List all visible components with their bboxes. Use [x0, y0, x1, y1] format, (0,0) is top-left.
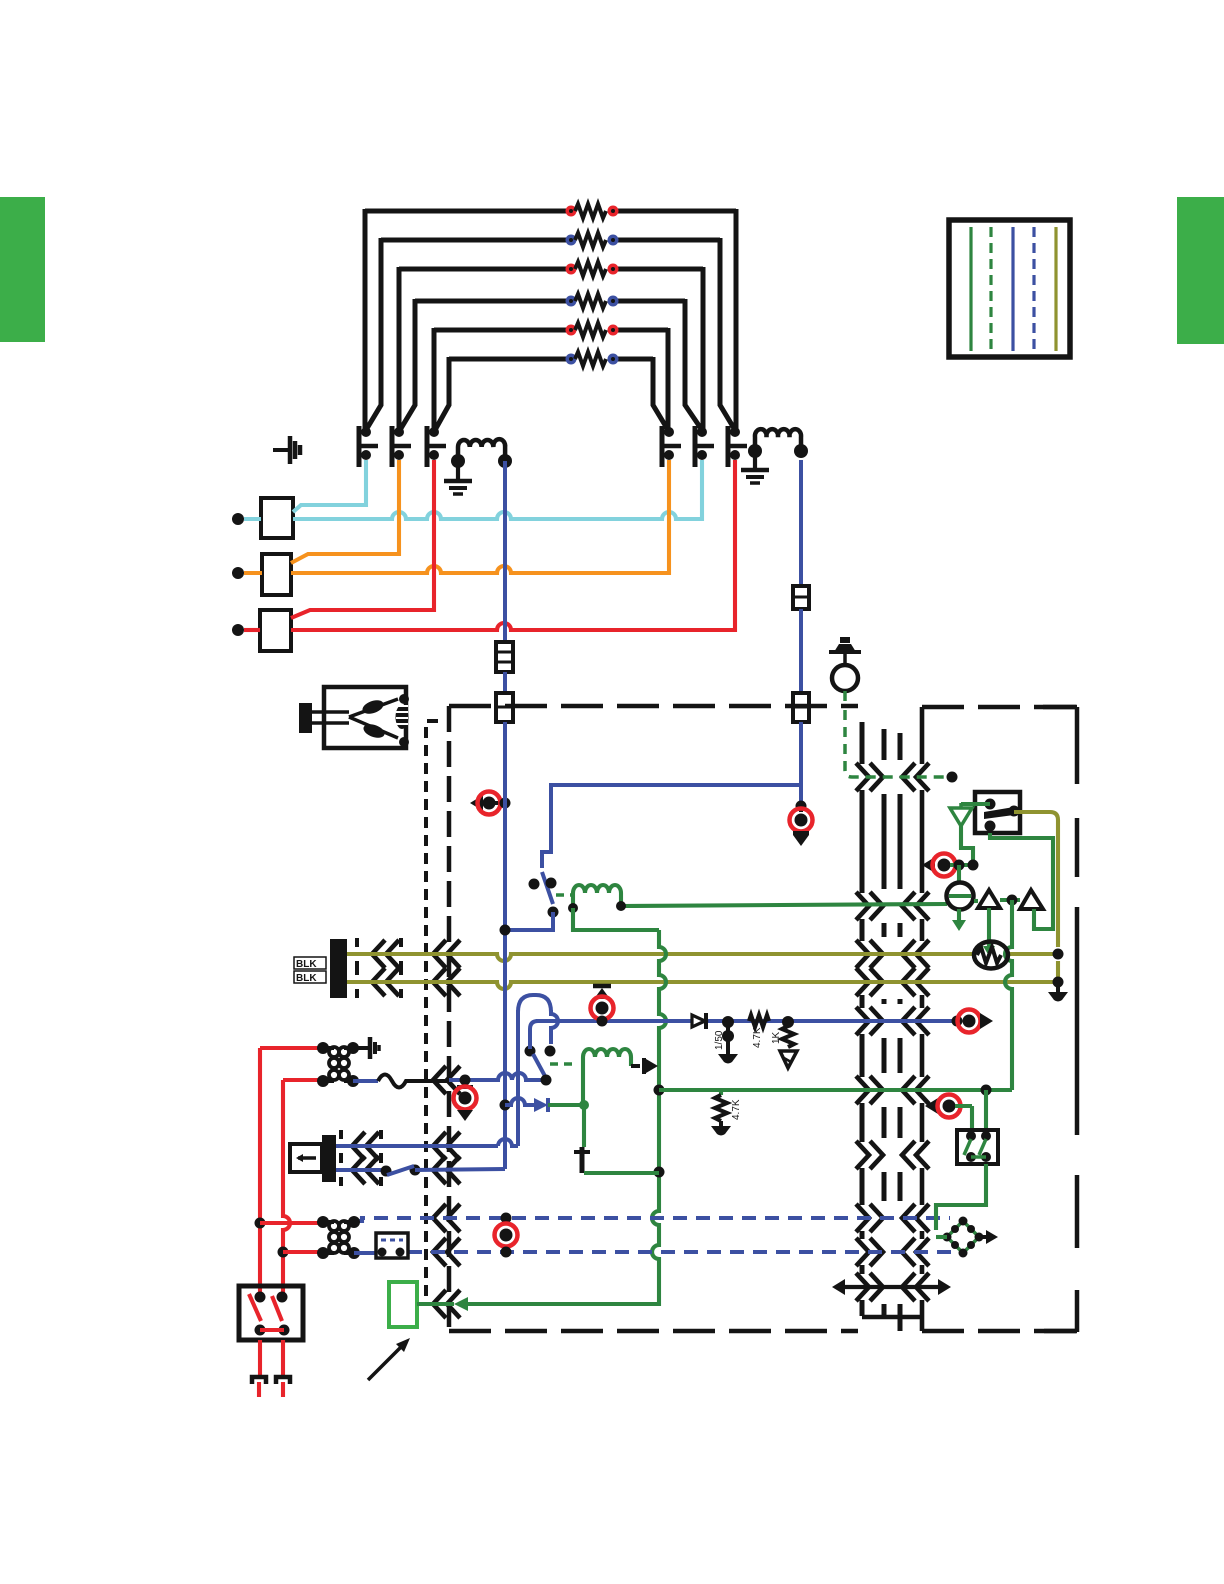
splice ring R6	[922, 857, 935, 873]
wire row4 left vertical+diag to coil T2	[400, 299, 415, 430]
sensor circle	[832, 665, 858, 691]
inductor L1 (left trigger coil)	[458, 439, 505, 461]
blue main drop mid	[503, 722, 507, 1169]
wire row4 right vertical+diag to coil T5	[685, 299, 702, 430]
spark module box	[290, 1144, 322, 1172]
dashed box main top edge	[449, 704, 858, 709]
green wire K2 to capacitor	[582, 1105, 586, 1147]
blue jumper y995	[518, 995, 551, 1012]
green wire triangle to splice	[961, 826, 973, 865]
module-side connector pins at y=1146	[352, 1132, 365, 1160]
blue wire C2 down to splice	[799, 722, 803, 806]
right dashed box top edge	[922, 705, 1077, 710]
right dashed box right edge	[1043, 705, 1077, 710]
svg-text:4.7K: 4.7K	[731, 1099, 742, 1120]
stator-side connector housing dashes	[355, 938, 359, 947]
gauge circle G1	[957, 865, 961, 883]
splice ring R8	[925, 1098, 938, 1114]
relay coil K1	[573, 885, 621, 893]
svg-text:4.7K: 4.7K	[752, 1027, 763, 1048]
page tab left	[0, 197, 45, 342]
green vertical from T-junction	[1005, 900, 1012, 1090]
condenser C3	[574, 1150, 590, 1154]
chassis ground (sideways) near towers	[273, 448, 290, 452]
points switch S1 blade	[542, 872, 553, 904]
connector box B2	[262, 554, 291, 595]
connector bank pin pair at y=1218	[856, 1204, 869, 1232]
battery terminal clamps	[252, 1377, 266, 1384]
blue module row top	[336, 1144, 498, 1148]
connector diamond	[947, 1221, 979, 1253]
wire row1 right vertical to coil T6	[734, 209, 739, 430]
red wire T3 drop to B3	[291, 460, 434, 618]
green gauge row	[659, 1088, 1012, 1092]
spark plug resistor R5	[566, 325, 577, 336]
olive wire row 2	[347, 982, 1056, 989]
blue dashed row 2	[408, 1250, 952, 1254]
wire row3 left vertical to coil T2	[397, 267, 402, 430]
spark plug wire row 1 horizontal	[365, 209, 571, 214]
connector bank housing line B	[882, 729, 887, 760]
wire row6 left vertical+diag to coil T3	[435, 357, 449, 430]
green ground arrow under G1	[957, 909, 961, 920]
red wires S4 to battery	[258, 1340, 262, 1377]
connector box B1	[261, 498, 293, 538]
transformer W2	[323, 1220, 334, 1224]
red vertical feed 1	[258, 1048, 262, 1223]
interlock box B4	[354, 1251, 376, 1255]
svg-text:1/50: 1/50	[714, 1030, 725, 1050]
resistor 4.7K horizontal	[749, 1015, 769, 1027]
blue wire branch to points switch	[542, 785, 801, 868]
green connector box (instrument)	[389, 1282, 417, 1327]
spark plug resistor R1	[566, 206, 577, 217]
S5 contacts	[966, 1131, 976, 1141]
inductor L2 (right trigger coil)	[755, 429, 801, 451]
capacitor 1/50 branch	[722, 1016, 734, 1028]
green arrow into instrument connector	[454, 1297, 468, 1311]
relay box K3	[975, 792, 1020, 833]
orange wire B2 to T4 (long row)	[291, 460, 669, 573]
blue wire from L1 down to fuse F1	[503, 461, 507, 642]
cyan wire B1 to T5 (long row)	[293, 460, 702, 519]
blue drop junction dots	[500, 925, 511, 936]
mechanical link S1 to K1	[556, 893, 571, 897]
connector bank pin pair at y=982	[856, 968, 869, 996]
splice ring R7	[952, 1016, 963, 1027]
connector bank housing line D (right box left edge)	[920, 707, 925, 764]
kill switch S3	[381, 1166, 392, 1177]
splice ring R1	[470, 795, 483, 811]
terminal dot B2	[232, 567, 244, 579]
diamond output arrow	[979, 1235, 986, 1239]
green wire S5 to diamond	[936, 1164, 986, 1230]
green dashed end dot	[947, 772, 958, 783]
ground at W1	[353, 1046, 370, 1050]
red wire to coil W1 top	[260, 1046, 323, 1050]
ground below L2	[753, 456, 757, 469]
blue wire F1 to connector C1	[503, 672, 507, 693]
blue ignition row	[536, 1019, 692, 1023]
spark plug wire row 4 horizontal	[415, 299, 571, 304]
annotation arrow to green box	[368, 1344, 404, 1380]
green vertical main (x659)	[659, 930, 666, 1090]
points switch S2 blade	[533, 1054, 546, 1078]
page tab right	[1177, 197, 1224, 344]
terminal dot B1	[232, 513, 244, 525]
spark plug resistor R6	[566, 354, 577, 365]
blue vertical x518	[516, 1010, 520, 1146]
connector bank pin pair at y=906	[856, 892, 869, 920]
blue dashed row 1	[354, 1218, 950, 1221]
olive wire row 1 right segment	[1009, 952, 1056, 956]
ignition coil tower T5	[693, 426, 698, 467]
stator plug	[299, 703, 312, 733]
green gauge row right dot	[981, 1085, 992, 1096]
left harness connector pins at y=1146	[433, 1132, 446, 1160]
splice ring R5	[501, 1213, 512, 1224]
stator-side connector pins at y=982	[372, 968, 385, 996]
blue wire to diode D2	[505, 1098, 534, 1105]
sensor bulb antenna	[829, 650, 861, 654]
green vertical main lower (x659)	[468, 1090, 659, 1304]
resistor 4.7K vertical with ground	[719, 1090, 723, 1095]
module-side connector housing dashes	[339, 1130, 343, 1139]
BLK label block	[330, 939, 347, 998]
blue wire from L2 down to fuse F2	[799, 460, 803, 586]
ignition coil W1	[323, 1046, 334, 1050]
K3 contacts	[985, 799, 996, 810]
wire row2 right vertical+diag to coil T6	[720, 238, 735, 430]
ignition coil tower T1	[357, 426, 362, 467]
fuse F2	[793, 586, 809, 609]
stator-side connector pins at y=954	[372, 940, 385, 968]
olive wire row 1	[347, 954, 973, 961]
wire row5 right vertical to coil T4	[666, 328, 671, 430]
bottom harness row	[832, 1279, 845, 1295]
connector bank pin pair at y=1090	[856, 1076, 869, 1104]
spark plug wire row 6 horizontal	[449, 357, 571, 362]
spark plug resistor R4	[566, 296, 577, 307]
green junction dots x659	[654, 1085, 665, 1096]
spark plug resistor R3	[566, 264, 577, 275]
connector box B3	[260, 610, 291, 651]
red vertical feed 2	[283, 1080, 290, 1297]
spark plug resistor R2	[566, 235, 577, 246]
stator box	[324, 687, 406, 748]
red wire to W2 top	[260, 1221, 323, 1225]
green dashed sensor wire	[843, 691, 847, 704]
connector bank pin pair at y=954	[856, 940, 869, 968]
wire row6 right vertical+diag to coil T4	[653, 357, 668, 430]
left harness connector pins at y=1218	[433, 1204, 446, 1232]
diode D1	[692, 1015, 705, 1027]
S4 contacts	[255, 1292, 266, 1303]
K2 output arrow	[631, 1064, 640, 1068]
blue wire F2 to connector C2	[799, 609, 803, 693]
olive wire K3 out	[1014, 812, 1058, 947]
orange wire T2 drop to B2	[291, 460, 399, 563]
red wire to coil W1 bottom	[283, 1078, 323, 1082]
ignition coil tower T6	[726, 426, 731, 467]
fuse F1	[496, 642, 513, 672]
wire row2 left vertical+diag to coil T1	[366, 238, 381, 430]
key switch box S4	[239, 1286, 303, 1340]
noise suppressor wire	[353, 1079, 378, 1083]
spark plug wire row 5 horizontal	[434, 328, 571, 333]
right dashed box bottom edge	[922, 1329, 1077, 1334]
legend box with wire color key	[949, 220, 1070, 357]
green wire K3 to T2	[990, 833, 1053, 929]
green triangle device	[950, 808, 972, 826]
mechanical link S2 to K2	[550, 1062, 578, 1066]
resistor 1K vertical with ground	[782, 1016, 794, 1028]
blue module row bottom right	[415, 1169, 505, 1170]
blue vertical x530 contact drop	[530, 1021, 538, 1049]
blue module row bottom	[336, 1168, 382, 1172]
connector bank pin pair at y=777	[856, 763, 869, 791]
connector bank bottom joint	[862, 1315, 922, 1320]
indicator lamp	[974, 942, 1008, 969]
left harness connector pins at y=954	[433, 940, 446, 968]
dashed box main bottom edge	[449, 1329, 858, 1334]
green wire K1-left down and over	[573, 908, 659, 930]
green wires to switch S5	[970, 1106, 974, 1130]
connector bank housing line A	[860, 722, 865, 764]
spark plug wire row 2 horizontal	[381, 238, 571, 243]
left harness connector pins at y=1170	[433, 1156, 446, 1184]
bulkhead connector C1	[496, 693, 513, 722]
ignition coil tower T4	[660, 426, 665, 467]
wire row1 left vertical to coil T1	[363, 209, 368, 430]
blue accessory row	[449, 1073, 546, 1080]
splice ring R2	[796, 801, 807, 812]
left harness connector pins at y=1080	[433, 1066, 446, 1094]
wire row3 right vertical to coil T5	[701, 267, 706, 430]
spark module plug	[322, 1135, 336, 1182]
red wire to W2 bottom	[283, 1250, 323, 1254]
switch box S5	[957, 1130, 998, 1164]
connector bank pin pair at y=1021	[856, 1007, 869, 1035]
module-side connector pins at y=1170	[352, 1156, 365, 1184]
connector bank housing line C	[898, 733, 903, 760]
red wire B3 to T6 (long row)	[291, 460, 735, 630]
connector bank pin pair at y=1287	[856, 1273, 869, 1301]
ground under olive bus	[1056, 982, 1060, 992]
relay coil K2	[583, 1049, 631, 1057]
green wire C3 to x659	[584, 1171, 659, 1175]
splice ring R4	[460, 1075, 471, 1086]
blue vertical x551	[551, 1010, 558, 1044]
diode D2 (blue)	[534, 1098, 548, 1112]
regulator triangle T2	[1020, 890, 1043, 909]
green wire to K3	[961, 802, 990, 806]
ignition coil tower T3	[425, 426, 430, 467]
connector bank pin pair at y=1252	[856, 1238, 869, 1266]
green wires between triangles	[1000, 898, 1020, 902]
terminal dot B3	[232, 624, 244, 636]
connector bank pin pair at y=1155	[856, 1141, 869, 1169]
spark plug wire row 3 horizontal	[399, 267, 571, 272]
svg-text:1K: 1K	[771, 1031, 782, 1044]
wire row5 left vertical to coil T3	[432, 328, 437, 430]
ignition coil tower T2	[390, 426, 395, 467]
green wire T1 to lamp	[987, 908, 991, 946]
splice ring R3	[593, 984, 611, 989]
dashed box left edge (small dash) with top stub	[426, 721, 438, 1300]
left harness connector pins at y=982	[433, 968, 446, 996]
bulkhead connector C2	[793, 693, 809, 722]
green wire D2 to K2	[548, 1103, 584, 1107]
regulator triangle T1	[978, 890, 1000, 908]
blue wire S1 to main drop	[505, 912, 553, 930]
left harness connector pins at y=1304	[433, 1290, 446, 1318]
cyan wire T1 drop to B1	[293, 460, 366, 512]
green wire coil K1 to connector bank	[621, 904, 947, 906]
dashed box main left edge	[447, 706, 452, 1331]
left harness connector pins at y=1252	[433, 1238, 446, 1266]
ground below L1	[456, 466, 460, 480]
